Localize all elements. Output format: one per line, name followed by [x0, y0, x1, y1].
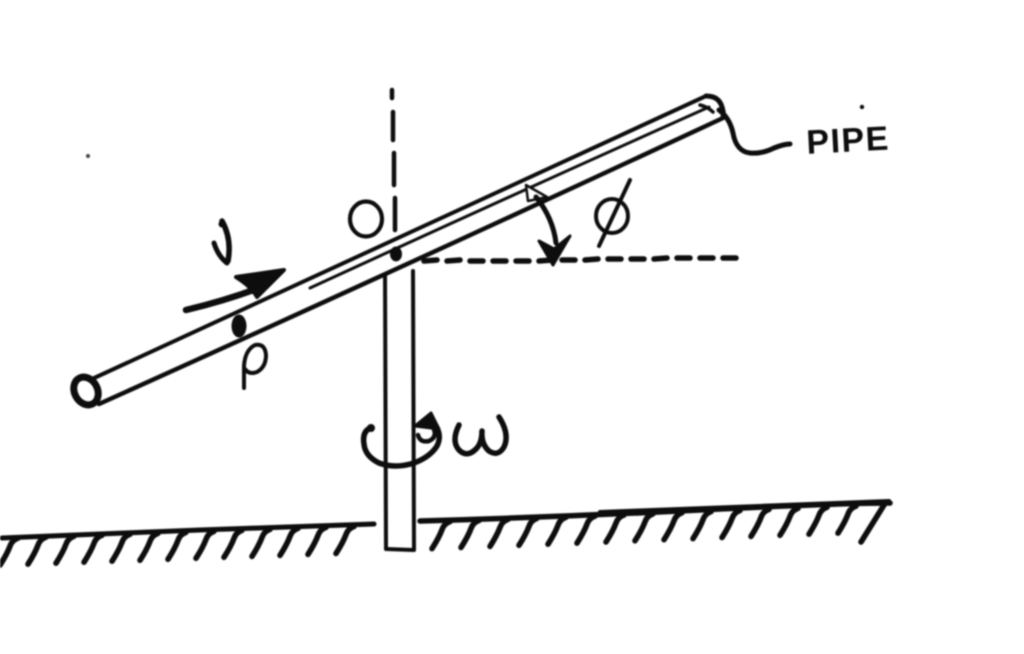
PIPE text [805, 120, 890, 162]
post (vertical shaft) [385, 268, 414, 550]
pivot dot at O [390, 247, 402, 262]
ground line right of post [420, 503, 890, 521]
pipe bottom edge [99, 118, 723, 404]
squiggle leader to PIPE label [719, 110, 790, 153]
stray dot top left [86, 154, 90, 158]
velocity arrow shaft [186, 288, 259, 310]
ground line left of post [2, 524, 374, 538]
label O [350, 202, 382, 237]
svg-text:PIPE: PIPE [805, 120, 890, 162]
dashed vertical axis line [392, 90, 395, 230]
pipe top edge [92, 96, 706, 379]
pipe right end cap [706, 96, 723, 117]
pipe inner contour end tick [700, 105, 713, 112]
point P dot [232, 315, 247, 338]
angle arc with arrowhead [536, 197, 556, 243]
omega rotation arrow around post [364, 413, 440, 466]
pipe inner contour [310, 107, 709, 288]
stray dot above PIPE [860, 105, 864, 109]
ground hatching right [432, 505, 884, 549]
phi label [596, 180, 630, 246]
v symbol [222, 221, 229, 261]
omega label [455, 417, 506, 454]
label p [244, 345, 266, 388]
pipe body (white fill) [92, 96, 723, 404]
ground hatching left [0, 527, 354, 566]
velocity arrowhead [236, 270, 284, 297]
dashed horizontal reference line [424, 258, 736, 261]
small open triangle tick on pipe [526, 185, 547, 201]
pipe left end opening [69, 373, 103, 409]
